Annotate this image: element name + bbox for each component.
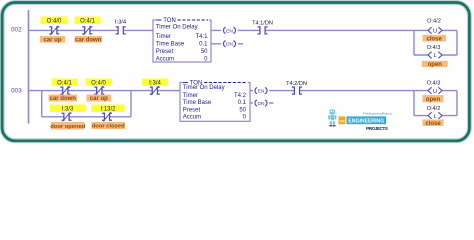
- svg-text:O:4/3: O:4/3: [427, 45, 441, 51]
- svg-text:Preset: Preset: [156, 49, 174, 55]
- rung 002 output branch lower wire: [414, 54, 457, 56]
- svg-text:O:4/1: O:4/1: [57, 80, 72, 86]
- contact XIC T4:1/DN: [258, 27, 268, 34]
- rung 003 output branch lower wire: [414, 115, 457, 117]
- address label O:4/1 rung3: [52, 79, 78, 87]
- svg-text:Time Base: Time Base: [156, 42, 185, 48]
- latch coil OTL O:4/2: [428, 112, 442, 120]
- svg-text:ENGINEERING: ENGINEERING: [348, 119, 384, 125]
- contact XIC T4:2/DN: [292, 87, 302, 94]
- symbol label car down rung3: [49, 95, 78, 103]
- svg-text:O:4/0: O:4/0: [91, 80, 106, 86]
- address label O:4/0: [41, 17, 68, 25]
- contact XIO I:13/2 door closed: [102, 112, 112, 121]
- rung 003 output branch right vertical: [456, 91, 458, 116]
- svg-text:Timer: Timer: [156, 34, 171, 40]
- svg-text:003: 003: [11, 88, 22, 95]
- svg-text:002: 002: [11, 26, 22, 33]
- unlatch coil OTU O:4/2: [428, 27, 442, 35]
- svg-text:DN: DN: [257, 101, 265, 107]
- svg-text:door opened: door opened: [50, 124, 86, 130]
- rung 003 wire: rail to TON block: [29, 90, 181, 92]
- svg-text:50: 50: [239, 107, 246, 113]
- svg-text:close: close: [427, 36, 443, 42]
- symbol label open rung3: [423, 95, 444, 103]
- svg-text:T4:2: T4:2: [234, 93, 247, 99]
- contact XIO O:4/0 car up rung3: [94, 86, 104, 95]
- svg-text:Timer On Delay: Timer On Delay: [156, 25, 198, 31]
- svg-text:O:4/0: O:4/0: [47, 18, 62, 24]
- timer block TON T4:1: [153, 17, 211, 62]
- svg-text:car up: car up: [43, 38, 61, 44]
- svg-text:DN: DN: [226, 42, 234, 48]
- svg-text:Accum: Accum: [156, 56, 174, 62]
- address label I:13/2: [92, 105, 125, 113]
- svg-text:car down: car down: [75, 38, 102, 44]
- rung 002 output branch right vertical: [456, 30, 458, 55]
- svg-text:U: U: [433, 29, 437, 35]
- svg-text:0.1: 0.1: [238, 100, 247, 106]
- left power rail: [28, 10, 30, 124]
- watermark logo TheEngineeringProjects: [328, 110, 392, 132]
- symbol label door closed: [92, 122, 126, 130]
- svg-text:T4:2/DN: T4:2/DN: [286, 81, 307, 87]
- svg-text:I:13/2: I:13/2: [100, 106, 116, 112]
- contact XIO O:4/1 car down: [82, 26, 92, 35]
- svg-text:U: U: [433, 89, 437, 95]
- svg-text:I:3/4: I:3/4: [115, 20, 127, 26]
- svg-text:#TheEngineeringProjects: #TheEngineeringProjects: [363, 111, 393, 115]
- rung 003 input branch right vertical: [130, 91, 132, 117]
- rung 002 DN output stub: [211, 43, 243, 45]
- latch coil OTL O:4/3: [428, 52, 442, 60]
- svg-text:open: open: [426, 97, 441, 103]
- rung 003 wire: TON EN output to output branch: [250, 90, 457, 92]
- svg-text:EN: EN: [226, 28, 233, 34]
- svg-text:Accum: Accum: [183, 115, 201, 121]
- symbol label door opened: [50, 122, 86, 130]
- svg-text:Time Base: Time Base: [183, 100, 212, 106]
- EN output bit T4:2/EN: [253, 87, 269, 94]
- symbol label open: [422, 61, 448, 68]
- svg-text:L: L: [433, 114, 436, 120]
- DN output bit T4:2/DN coil: [253, 100, 269, 107]
- contact XIO O:4/0 car up: [49, 26, 59, 35]
- svg-text:T4:1/DN: T4:1/DN: [252, 20, 273, 26]
- rung 003 input branch left vertical: [41, 91, 43, 117]
- rung 002 wire: TON EN output to output branch: [211, 29, 457, 31]
- address label O:4/0 rung3: [86, 79, 112, 87]
- symbol label car up: [40, 36, 65, 44]
- svg-text:Timer: Timer: [183, 93, 198, 99]
- rung 002 output branch left vertical: [413, 30, 415, 55]
- symbol label close rung3: [423, 120, 444, 127]
- contact XIC I:3/4: [116, 27, 126, 34]
- svg-text:car down: car down: [50, 96, 77, 102]
- svg-text:Preset: Preset: [183, 107, 201, 113]
- rung 003 input branch lower wire: [42, 116, 131, 118]
- address label O:4/1: [75, 17, 101, 25]
- symbol label car down: [75, 36, 103, 44]
- svg-text:PROJECTS: PROJECTS: [366, 126, 389, 132]
- rung 003 DN output stub: [250, 102, 274, 104]
- svg-text:0.1: 0.1: [199, 42, 208, 48]
- svg-text:50: 50: [201, 49, 208, 55]
- address label I:3/3: [50, 105, 85, 113]
- svg-text:THE: THE: [339, 119, 344, 123]
- symbol label car up rung3: [87, 95, 112, 103]
- svg-text:O:4/2: O:4/2: [427, 19, 441, 25]
- svg-text:close: close: [425, 121, 441, 127]
- rung 003 output branch left vertical: [413, 91, 415, 116]
- svg-text:door closed: door closed: [92, 124, 125, 130]
- timer block TON T4:2: [180, 80, 250, 121]
- address label I:3/4 rung3: [142, 79, 168, 87]
- contact XIO O:4/1 car down rung3: [60, 86, 70, 95]
- svg-text:TON: TON: [163, 18, 176, 24]
- svg-text:O:4/2: O:4/2: [427, 106, 441, 112]
- svg-text:EN: EN: [258, 89, 265, 95]
- unlatch coil OTU O:4/3: [428, 87, 442, 95]
- EN output bit T4:1/EN: [221, 27, 237, 34]
- svg-text:I:3/3: I:3/3: [62, 106, 74, 112]
- svg-text:O:4/3: O:4/3: [427, 80, 441, 86]
- svg-text:T4:1: T4:1: [195, 34, 208, 40]
- symbol label close: [423, 35, 447, 43]
- svg-text:open: open: [428, 62, 443, 68]
- svg-text:car up: car up: [90, 96, 108, 102]
- svg-text:L: L: [433, 53, 436, 59]
- svg-text:O:4/1: O:4/1: [80, 18, 95, 24]
- rung 002 wire: rail to TON block: [29, 29, 154, 31]
- contact XIO I:3/4 rung3: [150, 86, 160, 95]
- contact XIO I:3/3 door opened: [62, 112, 72, 121]
- svg-text:Timer On Delay: Timer On Delay: [183, 85, 225, 91]
- svg-text:I:3/4: I:3/4: [149, 80, 161, 86]
- DN output bit T4:1/DN: [221, 41, 237, 48]
